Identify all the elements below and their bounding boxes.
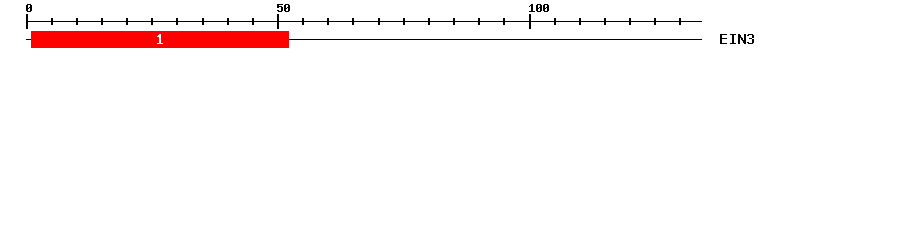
protein name EIN3: 3 xyxy=(747,34,754,44)
protein name EIN3: E xyxy=(720,34,727,44)
sequence line (right of domain) xyxy=(289,39,702,40)
domain bar 1 (red) xyxy=(31,31,289,48)
ruler minor ticks (every 5 units) xyxy=(51,18,681,25)
ruler label 100 xyxy=(529,4,549,12)
protein name EIN3: N xyxy=(738,34,746,44)
sequence line (left of domain) xyxy=(26,39,31,40)
ruler axis line xyxy=(26,21,702,22)
domain number 1 (white) xyxy=(157,34,163,44)
ruler major tick 0 xyxy=(26,14,28,29)
ruler label 50 xyxy=(277,4,290,12)
ruler major tick 50 xyxy=(277,14,279,29)
ruler label 0 xyxy=(26,4,32,12)
ruler major tick 100 xyxy=(529,14,531,29)
protein name EIN3: I xyxy=(730,34,736,44)
